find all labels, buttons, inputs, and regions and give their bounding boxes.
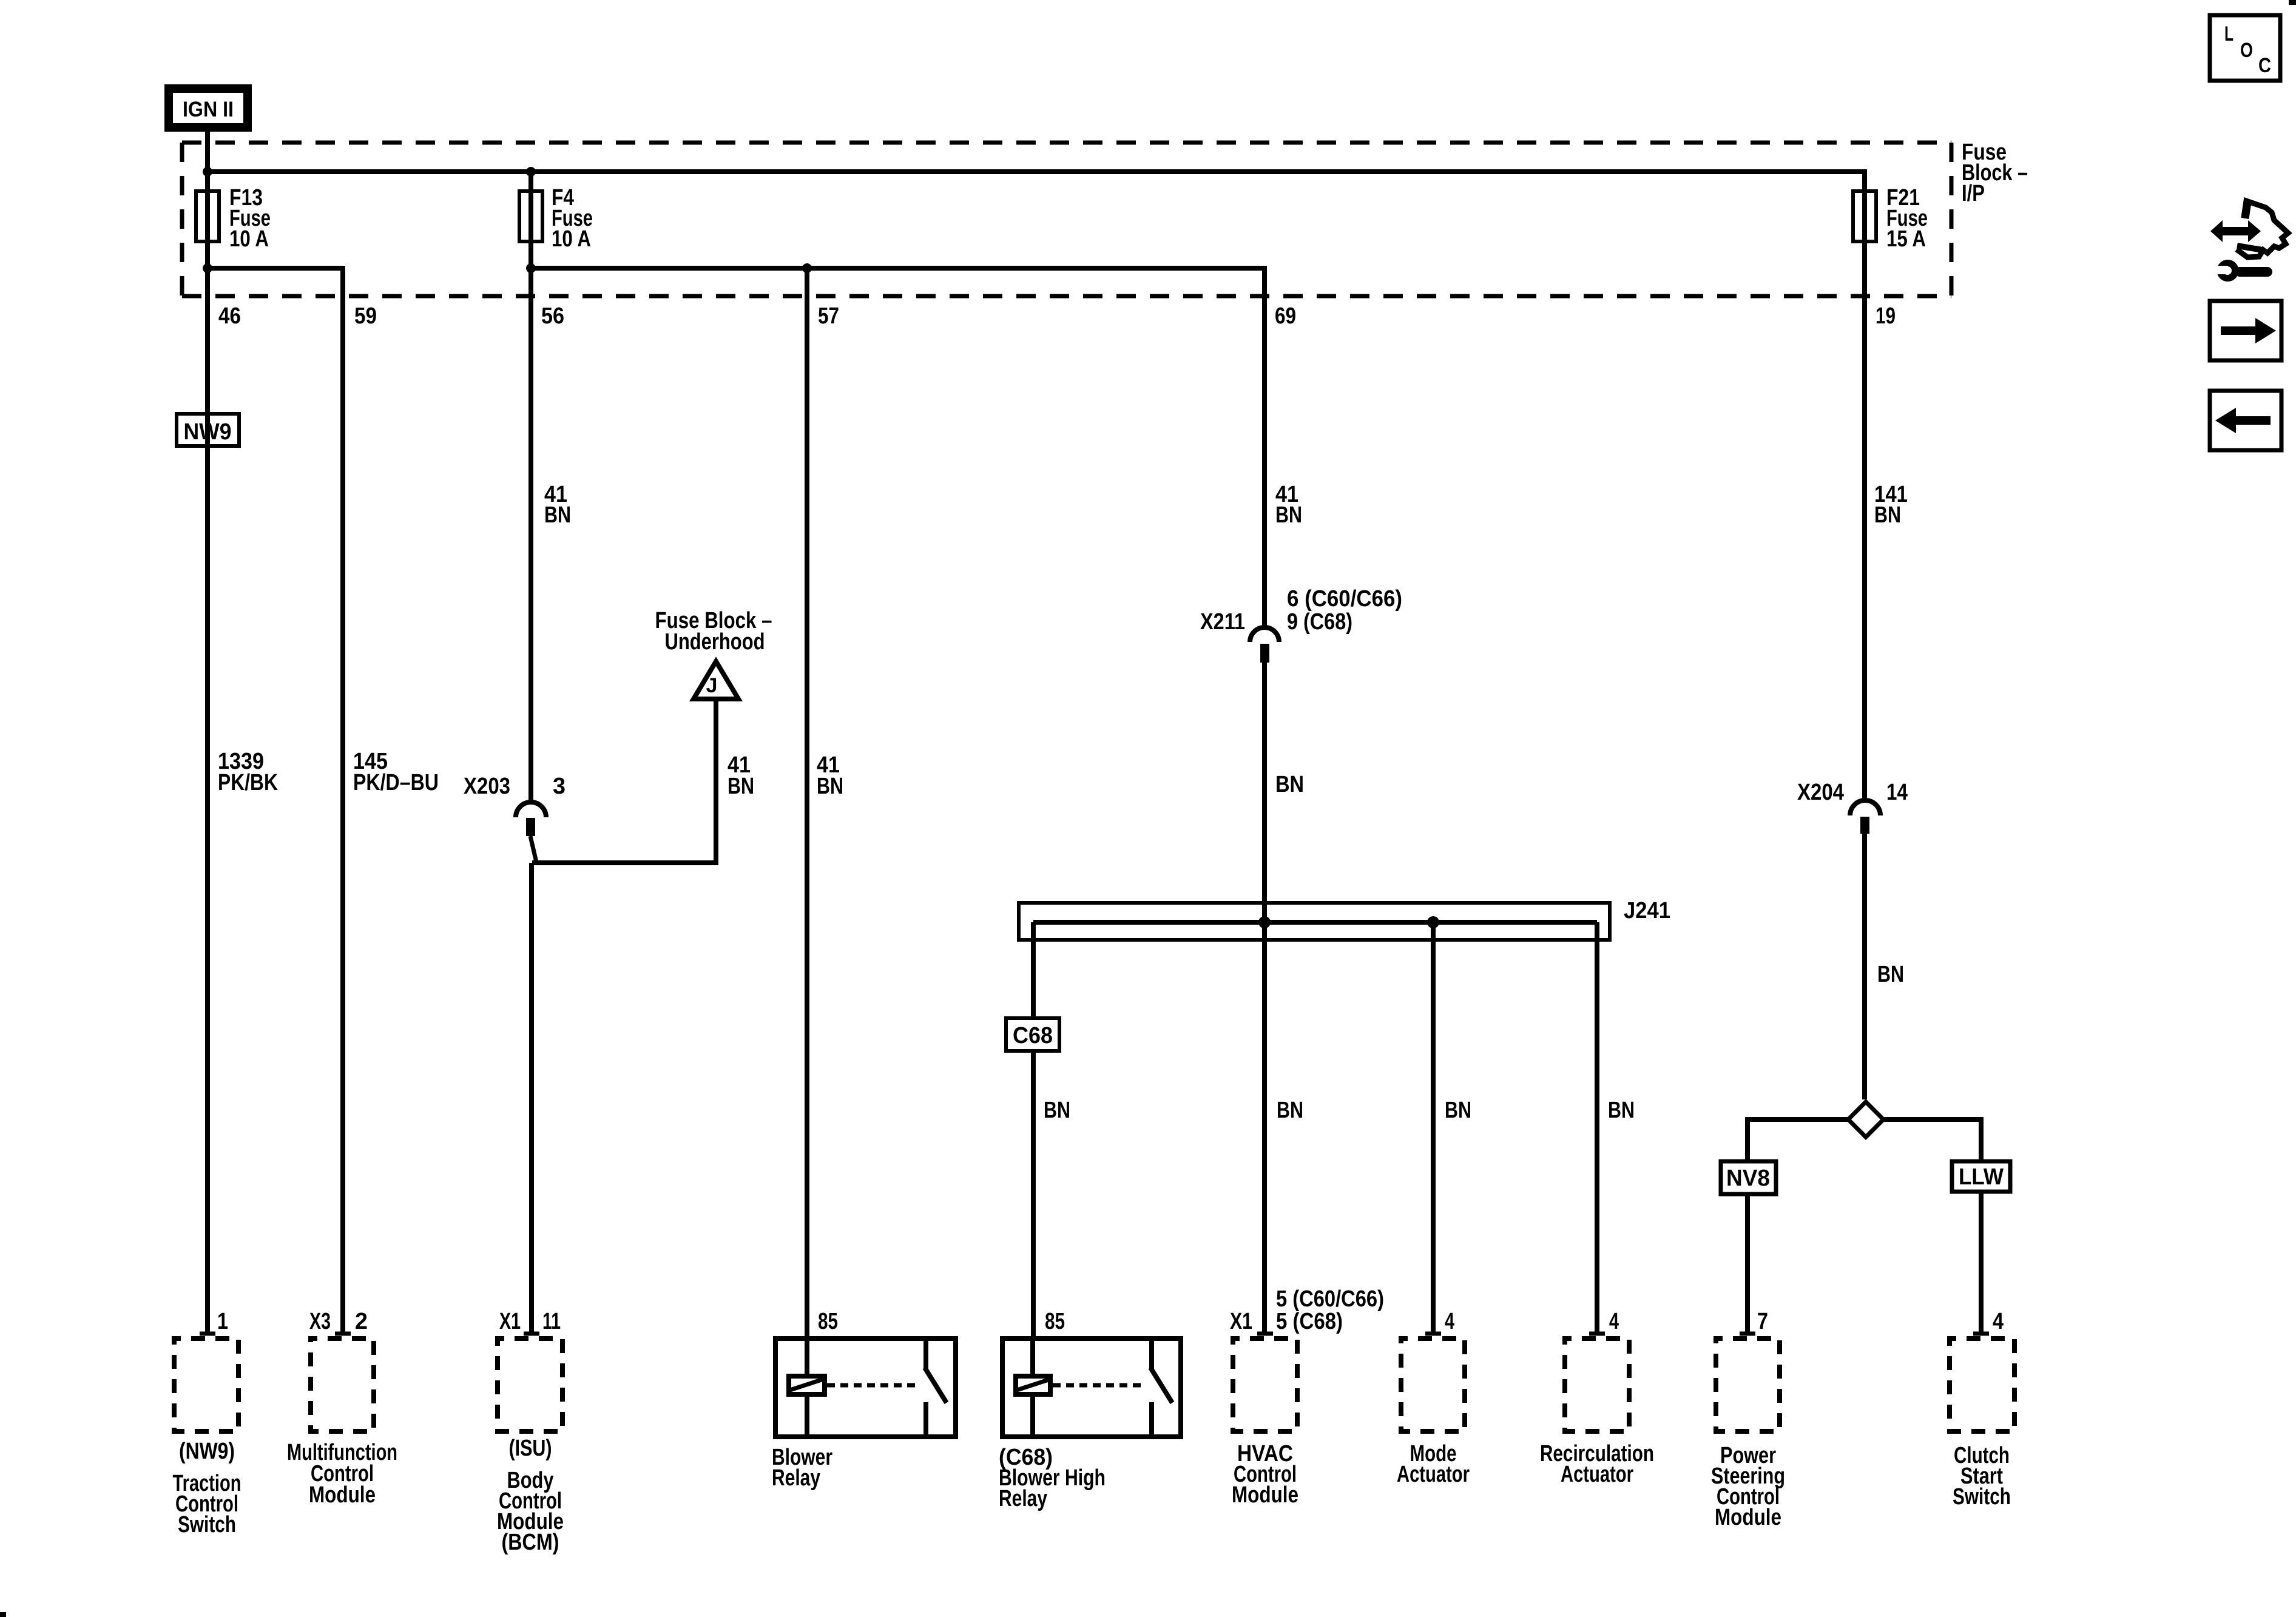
wire from J241 to mode actuator	[1431, 922, 1436, 1333]
wire from diamond to LLW	[1883, 1119, 1981, 1160]
svg-text:BN: BN	[1608, 1098, 1635, 1123]
svg-text:O: O	[2240, 39, 2253, 62]
wire label 145 PK/D-BU circuit 59	[353, 749, 439, 795]
splice pack J241 outline	[1019, 898, 1670, 940]
blower high relay coil	[1016, 1376, 1050, 1394]
recirculation actuator dashed box	[1565, 1338, 1629, 1431]
svg-text:5 (C68): 5 (C68)	[1276, 1309, 1343, 1334]
fuse block I/P dashed outline	[182, 143, 1951, 296]
svg-text:PK/BK: PK/BK	[218, 770, 278, 795]
svg-text:56: 56	[541, 303, 564, 329]
body control module dashed box	[498, 1338, 562, 1431]
svg-text:10 A: 10 A	[229, 226, 269, 252]
svg-text:BN: BN	[1277, 1098, 1303, 1123]
svg-text:IGN II: IGN II	[183, 98, 234, 121]
svg-text:4: 4	[1445, 1309, 1454, 1334]
svg-text:5 (C60/C66): 5 (C60/C66)	[1276, 1286, 1384, 1312]
wire 19 down from F21	[1862, 189, 1867, 799]
caption recirculation actuator	[1540, 1441, 1654, 1487]
pin labels row	[217, 1286, 2004, 1334]
svg-text:BN: BN	[1275, 772, 1304, 797]
label Fuse Block - Underhood	[655, 608, 772, 655]
svg-text:Underhood: Underhood	[665, 629, 765, 655]
blower relay actuation dashes	[827, 1383, 920, 1388]
svg-text:X203: X203	[464, 774, 510, 799]
wire branch to circuit 59	[208, 268, 343, 1333]
svg-text:X211: X211	[1200, 609, 1245, 635]
caption clutch start switch	[1953, 1443, 2011, 1510]
wire through F4	[528, 172, 533, 800]
pin terminal bars	[200, 1332, 1989, 1336]
wire from J241 to C68 connector	[1031, 922, 1036, 1016]
wire number labels under fuse block	[218, 303, 1896, 329]
power source box IGN II	[169, 89, 248, 127]
svg-text:7: 7	[1757, 1309, 1768, 1334]
svg-text:69: 69	[1275, 303, 1296, 329]
svg-text:I/P: I/P	[1962, 181, 1985, 206]
svg-text:9 (C68): 9 (C68)	[1287, 609, 1352, 635]
svg-text:10 A: 10 A	[552, 226, 591, 252]
wire 46 down to traction control switch	[205, 268, 210, 1333]
blower high relay switch	[1149, 1338, 1154, 1369]
svg-text:4: 4	[1609, 1309, 1619, 1334]
node junction at F13 bottom	[203, 263, 212, 273]
svg-text:Module: Module	[309, 1482, 376, 1508]
multifunction control module dashed box	[311, 1338, 374, 1431]
node junction J241 at mode actuator tap	[1427, 916, 1439, 928]
inline connector X203 pin 3	[464, 774, 566, 862]
wire label 1339 PK/BK circuit 46	[218, 749, 278, 795]
svg-text:85: 85	[818, 1309, 838, 1334]
wire NV8 to power steering control module	[1745, 1196, 1750, 1333]
hvac control module dashed box	[1233, 1338, 1297, 1431]
svg-text:59: 59	[354, 303, 377, 329]
svg-text:(ISU): (ISU)	[509, 1436, 552, 1461]
caption power steering control module	[1711, 1443, 1785, 1530]
svg-text:6 (C60/C66): 6 (C60/C66)	[1287, 586, 1402, 612]
svg-text:J241: J241	[1624, 898, 1670, 923]
wire through F13	[205, 172, 210, 268]
wire from diamond to NV8	[1747, 1119, 1848, 1160]
legend wrench icon	[2215, 260, 2272, 282]
fuse F13 10A	[196, 185, 271, 252]
wire 56 lower segment to BCM	[529, 863, 534, 1333]
wire 69 lower segment through J241 to HVAC	[1262, 663, 1267, 1333]
legend LOC box	[2210, 15, 2280, 81]
svg-text:X1: X1	[499, 1309, 521, 1334]
caption blower high relay	[999, 1445, 1106, 1511]
svg-text:L: L	[2224, 22, 2234, 46]
svg-text:Module: Module	[1232, 1482, 1298, 1508]
node junction wire 57 tap	[802, 263, 812, 273]
traction control switch dashed box	[174, 1338, 238, 1431]
caption mode actuator	[1397, 1441, 1470, 1487]
fuse F21 15A	[1853, 185, 1928, 252]
legend back arrow box	[2210, 391, 2281, 450]
blower high relay box	[1002, 1336, 1181, 1437]
svg-text:BN: BN	[817, 774, 843, 799]
caption body control module	[497, 1436, 564, 1555]
wire 19 from X204 to splice diamond	[1862, 834, 1867, 1099]
clutch start switch dashed box	[1950, 1338, 2014, 1431]
svg-text:4: 4	[1993, 1309, 2004, 1334]
svg-text:46: 46	[218, 303, 241, 329]
svg-text:X3: X3	[309, 1309, 331, 1334]
svg-text:57: 57	[818, 303, 839, 329]
svg-text:C68: C68	[1013, 1023, 1053, 1048]
svg-text:(NW9): (NW9)	[179, 1439, 235, 1464]
svg-text:BN: BN	[728, 774, 754, 799]
power steering control module dashed box	[1716, 1338, 1780, 1431]
label Fuse Block - I/P	[1962, 140, 2028, 206]
svg-text:Module: Module	[1715, 1505, 1781, 1530]
wire bus from F4 to circuit 69	[531, 268, 1264, 629]
wire label 141 BN circuit 19	[1874, 482, 1908, 528]
svg-text:BN: BN	[1874, 502, 1901, 528]
wire from J down and over to X203 jog	[532, 699, 716, 863]
wire label 41 BN circuit 57	[817, 752, 843, 799]
svg-text:Relay: Relay	[772, 1465, 820, 1491]
svg-text:Switch: Switch	[1953, 1484, 2011, 1510]
caption multifunction control module	[287, 1440, 397, 1508]
page corner mark top right	[2289, 0, 2296, 5]
svg-text:1: 1	[217, 1309, 228, 1334]
svg-text:3: 3	[553, 774, 566, 799]
blower high relay actuation dashes	[1053, 1383, 1146, 1388]
svg-text:Relay: Relay	[999, 1486, 1047, 1511]
svg-text:NW9: NW9	[184, 419, 232, 445]
legend forward arrow box	[2210, 301, 2281, 360]
wire label 41 BN circuit 69	[1275, 482, 1302, 528]
option code box LLW	[1952, 1161, 2010, 1192]
inline connector X204 pin 14	[1797, 780, 1908, 834]
wire from IGN II to bus	[205, 132, 210, 172]
wire from C68 to blower high relay	[1031, 1053, 1036, 1336]
svg-text:NV8: NV8	[1726, 1166, 1770, 1191]
svg-text:19: 19	[1876, 303, 1896, 329]
svg-text:BN: BN	[1275, 502, 1302, 528]
option code box NW9	[177, 414, 239, 446]
svg-text:2: 2	[355, 1309, 368, 1334]
wire label 41 BN underhood branch	[728, 752, 754, 799]
blower relay switch	[923, 1338, 928, 1369]
svg-text:11: 11	[542, 1309, 561, 1334]
mode actuator dashed box	[1401, 1338, 1465, 1431]
node junction at F4 top	[526, 167, 536, 177]
caption traction control switch	[173, 1439, 241, 1538]
page corner mark bottom left	[0, 1612, 6, 1617]
svg-text:BN: BN	[1877, 962, 1904, 987]
svg-text:C: C	[2258, 54, 2271, 77]
legend navigation icon inner bar	[2237, 246, 2263, 250]
legend navigation icon double arrow	[2210, 220, 2261, 242]
connector box C68	[1006, 1018, 1059, 1051]
svg-text:BN: BN	[544, 502, 571, 528]
splice diamond	[1848, 1102, 1883, 1137]
node junction at F4 bottom	[526, 263, 536, 273]
svg-text:X204: X204	[1797, 780, 1844, 805]
svg-text:Actuator: Actuator	[1397, 1462, 1470, 1487]
junction triangle J to underhood fuse block	[694, 661, 738, 699]
wire 57 down to blower relay	[805, 268, 809, 1336]
svg-text:(BCM): (BCM)	[502, 1530, 559, 1555]
svg-text:PK/D–BU: PK/D–BU	[353, 770, 439, 795]
svg-text:BN: BN	[1445, 1098, 1471, 1123]
svg-text:14: 14	[1886, 780, 1908, 805]
svg-text:BN: BN	[1044, 1098, 1070, 1123]
blower relay coil	[789, 1376, 825, 1394]
svg-text:X1: X1	[1230, 1309, 1252, 1334]
wire label 41 BN circuit 56	[544, 482, 571, 528]
splice bus inside J241	[1033, 920, 1597, 925]
svg-text:LLW: LLW	[1959, 1164, 2004, 1190]
wire from J241 to recirculation actuator	[1595, 922, 1599, 1333]
inline connector X211	[1200, 586, 1402, 663]
svg-text:85: 85	[1045, 1309, 1065, 1334]
svg-text:15 A: 15 A	[1886, 226, 1926, 252]
svg-text:Actuator: Actuator	[1561, 1462, 1633, 1487]
node junction at F13 top	[203, 167, 212, 177]
blower relay box	[775, 1336, 956, 1437]
fuse F4 10A	[519, 185, 593, 252]
wire LLW to clutch start switch	[1979, 1192, 1984, 1333]
legend navigation icon outline	[2237, 201, 2288, 257]
node junction J241 at wire 69	[1258, 916, 1271, 928]
option code box NV8	[1721, 1161, 1776, 1194]
svg-text:Switch: Switch	[178, 1512, 236, 1538]
svg-text:J: J	[706, 674, 718, 697]
caption hvac control module	[1232, 1441, 1298, 1508]
wire bus from IGN II feed	[208, 172, 1865, 189]
caption blower relay	[772, 1445, 832, 1491]
